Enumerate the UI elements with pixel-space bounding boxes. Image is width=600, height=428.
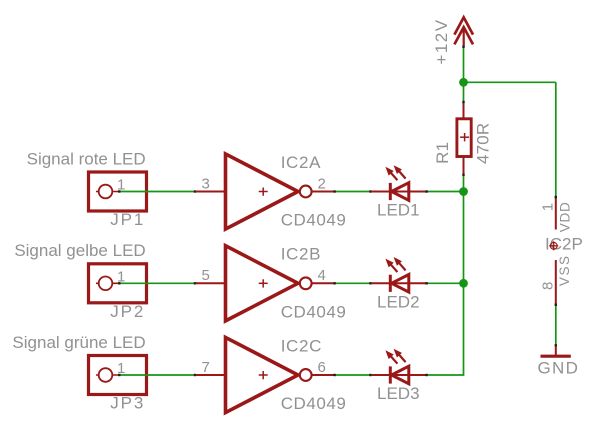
supply +12V symbol [454,17,473,46]
svg-text:6: 6 [318,359,326,376]
svg-text:CD4049: CD4049 [281,394,347,413]
svg-text:LED1: LED1 [377,201,420,220]
ground symbol GND [541,346,571,356]
svg-text:Signal rote LED: Signal rote LED [27,149,146,168]
wire junction to VDD branch [464,81,556,83]
svg-text:VSS: VSS [557,255,572,287]
wire [334,374,371,376]
svg-text:R1: R1 [433,142,452,164]
wire [426,374,464,376]
wire [426,282,464,284]
wire [334,191,371,193]
svg-text:4: 4 [318,267,326,284]
svg-text:LED2: LED2 [377,292,420,311]
svg-text:3: 3 [202,175,210,192]
inverter gate IC2A [196,154,335,229]
wire [334,282,371,284]
svg-text:Signal gelbe LED: Signal gelbe LED [14,241,145,260]
svg-text:VDD: VDD [557,202,572,233]
wire VSS to GND [555,304,557,346]
svg-text:IC2C: IC2C [281,336,322,355]
svg-text:JP3: JP3 [110,394,145,413]
wire rail down through LED junctions [463,174,465,375]
svg-text:LED3: LED3 [377,384,420,403]
connector JP3 [89,356,147,395]
wire [426,191,464,193]
IC2P origin cross [549,241,558,250]
svg-text:JP1: JP1 [110,210,145,229]
IC2P pin 8 VSS [555,260,557,304]
LED LED2 [371,257,426,292]
svg-text:Signal grüne LED: Signal grüne LED [12,333,145,352]
svg-text:+12V: +12V [432,18,451,64]
wire [119,282,196,284]
svg-text:5: 5 [202,267,210,284]
svg-text:IC2A: IC2A [281,153,321,172]
svg-text:IC2B: IC2B [281,245,321,264]
svg-text:8: 8 [540,282,557,290]
svg-text:7: 7 [202,359,210,376]
IC2P power part: pin 1 VDD [555,196,557,229]
node junction LED1 [459,187,468,196]
inverter gate IC2B [196,246,335,321]
svg-text:470R: 470R [474,123,493,164]
LED LED1 [371,165,426,200]
wire +12V to junction [463,46,465,102]
connector JP2 [89,264,147,303]
node junction LED2 [459,279,468,288]
node junction top [459,78,468,87]
svg-text:CD4049: CD4049 [281,302,347,321]
svg-text:JP2: JP2 [110,302,145,321]
svg-text:2: 2 [318,175,326,192]
inverter gate IC2C [196,337,335,412]
svg-text:GND: GND [538,359,580,378]
connector JP1 [89,172,147,211]
wire [119,191,196,193]
svg-text:CD4049: CD4049 [281,211,347,230]
wire [119,374,196,376]
LED LED3 [371,349,426,384]
svg-text:1: 1 [540,203,557,211]
resistor R1 [457,101,471,175]
